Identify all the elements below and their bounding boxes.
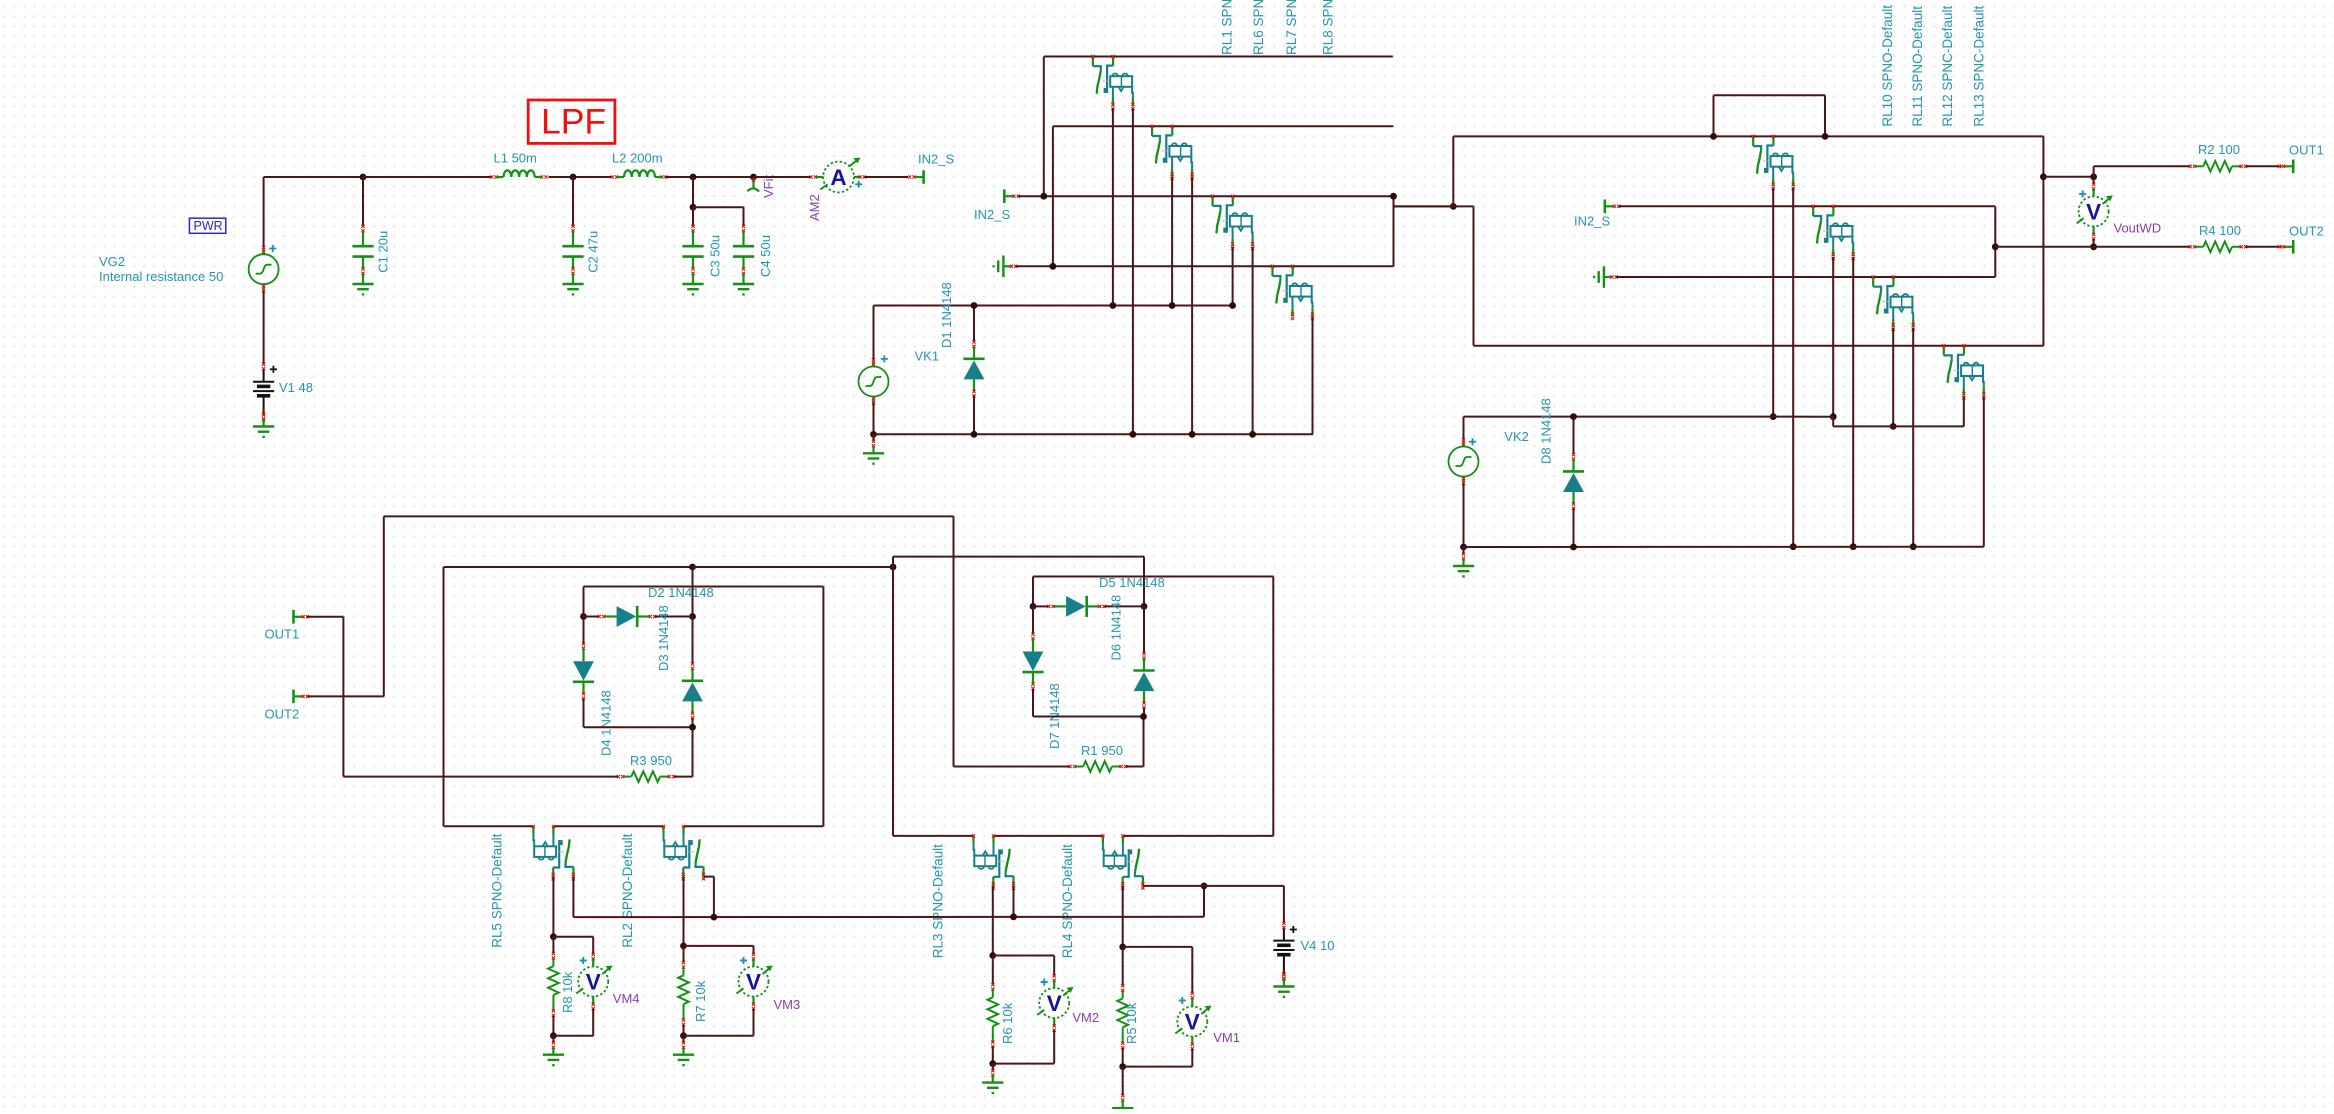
svg-text:LPF: LPF [541, 102, 606, 142]
junction RL7 coil1 [1229, 302, 1236, 309]
diode D8 1N4148 [1573, 417, 1575, 455]
svg-text:OUT1: OUT1 [2289, 143, 2324, 158]
ground (left-facing) right row 3 [1594, 266, 1612, 288]
svg-text:VM2: VM2 [1072, 1010, 1099, 1025]
wire R3 up [692, 727, 694, 776]
resistor R3 950 [617, 775, 625, 778]
voltmeter VM1 [1175, 997, 1211, 1045]
wire RL10 coil2 down [1792, 188, 1794, 547]
wire D5 cathode lead [1104, 605, 1144, 607]
wire main top-left [264, 176, 363, 178]
svg-text:V: V [1047, 991, 1062, 1016]
ground under VK2 [1453, 547, 1474, 576]
junction VFit [750, 174, 757, 181]
diode D5 1N4148 [1047, 605, 1055, 608]
wire rowR a [893, 835, 974, 837]
junction row4 riser [1050, 263, 1057, 270]
wire V4 drop [1283, 886, 1285, 924]
svg-text:V: V [1185, 1010, 1200, 1035]
junction J2 [1450, 203, 1457, 210]
relay RL3 SPNO-Default [974, 836, 1014, 886]
wire RL11 coil1 down [1832, 257, 1834, 417]
junction RL11 coil2 [1850, 543, 1857, 550]
wire RL5 contact drop [552, 877, 554, 937]
junction bridgeL left node [580, 613, 587, 620]
junction RL1 coil1 [1110, 302, 1117, 309]
svg-text:R7 10k: R7 10k [693, 980, 708, 1022]
junction R5 top [1119, 944, 1126, 951]
junction RL12 coil2 [1910, 543, 1917, 550]
junction RL6 coil1 [1169, 302, 1176, 309]
wire riser x1995 [1994, 206, 1996, 277]
junction bridgeL right node [689, 613, 696, 620]
battery V1 48 [253, 369, 274, 416]
resistor R8 10k [552, 952, 555, 960]
wire R8 stub [552, 937, 554, 954]
wire RL7 coil1 down [1232, 247, 1234, 306]
wire VM1 stem top [1191, 947, 1193, 993]
junction C1 node [360, 174, 367, 181]
svg-text:RL12 SPNC-Default: RL12 SPNC-Default [1940, 6, 1955, 127]
svg-text:C2 47u: C2 47u [585, 231, 600, 273]
junction control RL2 [711, 914, 718, 921]
wire OUT1 lead [307, 616, 344, 618]
svg-text:VM1: VM1 [1213, 1030, 1240, 1045]
wire J2 riser [1452, 136, 1454, 206]
diode D4 1N4148 [583, 617, 585, 644]
ammeter AM2 [816, 176, 824, 178]
resistor R1 950 [1069, 765, 1077, 768]
wire R5 bottom [1122, 1048, 1124, 1067]
capacitor C3 50u [692, 207, 694, 226]
wire RL13 coil2 down [1983, 396, 1985, 547]
wire RL13 coil1 down [1963, 396, 1965, 426]
wire RL6 coil1 down [1171, 177, 1173, 306]
wire to C4 [693, 206, 744, 208]
svg-text:R1 950: R1 950 [1081, 743, 1123, 758]
wire bridgeR bottom [1033, 716, 1144, 718]
plus V1 [270, 366, 277, 373]
relay RL8 SPNO-Default [1273, 266, 1313, 316]
junction control RL3 [1010, 913, 1017, 920]
svg-text:VM3: VM3 [774, 997, 801, 1012]
ground under VK1 [863, 434, 884, 463]
wire boxR left side [892, 557, 894, 836]
wire VM2 branch bottom [993, 1063, 1054, 1065]
voltage probe VFit [747, 179, 759, 192]
svg-text:VK1: VK1 [915, 349, 940, 364]
wire VK2 top [1463, 417, 1465, 440]
wire bridgeR feed drop [1143, 557, 1145, 607]
label PWR [189, 218, 225, 233]
svg-text:D4 1N4148: D4 1N4148 [599, 690, 614, 756]
wire D2 anode lead [584, 616, 600, 618]
wire RL5 blade drop [572, 877, 574, 918]
wire R1 right lead [1126, 766, 1144, 768]
svg-text:RL4 SPNO-Default: RL4 SPNO-Default [1060, 844, 1075, 958]
wire rowL c [684, 825, 824, 827]
svg-text:VG2: VG2 [99, 254, 125, 269]
wire VoutWD riser [2093, 166, 2095, 177]
relay RL5 SPNO-Default [533, 827, 573, 877]
wire bridgeR feed top [893, 556, 1144, 558]
wire D2 cathode lead [655, 616, 693, 618]
wire R2 to OUT1 [2246, 165, 2282, 167]
wire RL2 blade jog [704, 876, 714, 878]
wire R5 stub [1122, 947, 1124, 986]
relay RL7 SPNO-Default [1213, 196, 1253, 246]
relay RL4 SPNO-Default [1103, 836, 1143, 886]
ground under R5 [1122, 1067, 1124, 1096]
diode bridge R top wires [1032, 577, 1034, 607]
wire mid link row right [693, 566, 894, 568]
wire R6 bottom [992, 1047, 994, 1064]
diode D2 1N4148 [598, 615, 606, 618]
wire VK1 top [873, 306, 875, 362]
label LPF box [528, 100, 615, 143]
junction RL6 coil2 [1189, 431, 1196, 438]
wire RL4 blade to V4 [1143, 885, 1284, 887]
svg-text:RL11 SPNO-Default: RL11 SPNO-Default [1910, 6, 1925, 127]
ground under R6 [982, 1064, 1003, 1093]
wire OUT2 riser [383, 516, 385, 696]
wire J1 riser [1393, 196, 1395, 266]
junction C2 node [570, 174, 577, 181]
wire boxL left side [443, 567, 445, 826]
svg-text:IN2_S: IN2_S [918, 152, 954, 167]
wire relay row 1 [1044, 56, 1393, 58]
junction bridgeL bottom node [689, 724, 696, 731]
svg-text:V4 10: V4 10 [1301, 938, 1335, 953]
svg-text:IN2_S: IN2_S [1574, 214, 1610, 229]
svg-text:RL7 SPNO-Default: RL7 SPNO-Default [1284, 0, 1299, 55]
junction bridgeR right node [1141, 603, 1148, 610]
wire down to C3/C4 tap [692, 177, 694, 207]
battery V4 10 [1273, 928, 1294, 975]
svg-text:L1 50m: L1 50m [494, 151, 537, 166]
wire right row 2 [1619, 205, 1996, 207]
wire right row 1 [1453, 135, 2043, 137]
wire RL1 coil1 down [1112, 108, 1114, 306]
relay RL13 SPNC-Default [1944, 346, 1984, 396]
junction RL11 coil1 [1830, 413, 1837, 420]
resistor R6 10k [991, 983, 994, 991]
svg-text:VM4: VM4 [613, 991, 640, 1006]
port IN2_S (top) [914, 170, 924, 184]
voltage generator VG2 [249, 248, 279, 290]
resistor R4 100 [2189, 245, 2197, 248]
wire VK2 plus row [1464, 416, 1834, 418]
junction bridgeR bottom node [1140, 713, 1147, 720]
relay RL10 SPNO-Default [1753, 136, 1793, 186]
wire VK1 plus row [874, 305, 1234, 307]
resistor R5 10k [1121, 984, 1124, 992]
junction RL10 coil2 [1790, 543, 1797, 550]
wire VK2 bottom [1463, 484, 1465, 548]
wire rowR c [1123, 835, 1273, 837]
junction bridgeR feed [890, 564, 897, 571]
wire R4 to OUT2 [2246, 246, 2282, 248]
wire VK1 minus row [874, 433, 1314, 435]
svg-text:OUT1: OUT1 [265, 627, 300, 642]
capacitor C1 20u [362, 177, 364, 227]
junction VoutWD row tap [1992, 243, 1999, 250]
ground under R7 [673, 1036, 694, 1065]
wire right row 3 [1616, 276, 1995, 278]
wire VG2 to V1 [263, 291, 265, 365]
svg-text:VK2: VK2 [1504, 429, 1529, 444]
plus VK1 [881, 355, 888, 362]
diode D6 1N4148 [1143, 606, 1145, 653]
wire RL11 coil2 down [1852, 257, 1854, 547]
wire jog up left [1713, 95, 1715, 136]
svg-text:V: V [2086, 199, 2101, 224]
junction bridgeL feed [689, 564, 696, 571]
wire RL3 contact drop [992, 886, 994, 956]
voltmeter VM3 [737, 957, 773, 1005]
svg-text:D6 1N4148: D6 1N4148 [1109, 595, 1124, 661]
wire L1 to L2 [549, 176, 613, 178]
svg-text:RL5 SPNO-Default: RL5 SPNO-Default [490, 833, 505, 947]
ground under V1 [253, 408, 274, 437]
junction VoutWD top [2090, 173, 2097, 180]
svg-text:VFit: VFit [761, 175, 776, 199]
svg-text:R4 100: R4 100 [2199, 223, 2241, 238]
wire R7 bottom [683, 1025, 685, 1036]
wire to AM2 [754, 176, 812, 178]
wire RL2 contact drop [683, 877, 685, 946]
wire VoutWD stem top [2093, 177, 2095, 184]
wire R3 right lead [674, 776, 693, 778]
ground under V4 [1273, 968, 1294, 997]
junction V4 feed [1201, 883, 1208, 890]
svg-text:R6 10k: R6 10k [1000, 1002, 1015, 1044]
junction R6 bottom [989, 1060, 996, 1067]
wire to L1 [363, 176, 491, 178]
wire drop to R1 [953, 516, 955, 766]
wire VM4 branch top [553, 936, 593, 938]
wire mid link row left [444, 566, 693, 568]
diode bridge L top node wires [583, 587, 585, 617]
wire R3 left lead [343, 776, 618, 778]
wire VM3 stem top [753, 946, 755, 954]
wire RL12 coil2 down [1912, 328, 1914, 547]
wire riser x1473 [1473, 206, 1475, 345]
wire rowL a [444, 825, 534, 827]
wire relay row 4 [1016, 265, 1394, 267]
wire RL7 coil2 down [1252, 247, 1254, 435]
svg-text:RL10 SPNO-Default: RL10 SPNO-Default [1880, 5, 1895, 127]
wire VK2 minus row [1464, 546, 1984, 548]
wire riser x1053 [1052, 126, 1054, 266]
wire jog down right [1824, 95, 1826, 136]
junction D8 bottom [1570, 544, 1577, 551]
wire top link OUT2 to R1 [384, 515, 954, 517]
ground under R8 [543, 1036, 564, 1065]
wire control row [573, 916, 1204, 918]
capacitor C2 47u [572, 177, 574, 227]
junction RL12 coil1 [1890, 423, 1897, 430]
svg-text:C1 20u: C1 20u [375, 231, 390, 273]
svg-text:OUT2: OUT2 [2289, 223, 2324, 238]
relay RL1 SPNO-Default [1093, 57, 1133, 107]
wire relay row 3 IN2_S [1018, 195, 1394, 197]
junction bridgeR left node [1030, 603, 1037, 610]
junction RL7 coil2 [1249, 431, 1256, 438]
wire R1 up [1143, 717, 1145, 767]
svg-text:VoutWD: VoutWD [2114, 221, 2162, 236]
svg-text:AM2: AM2 [807, 194, 822, 221]
wire R1 left lead [954, 766, 1071, 768]
wire riser x1044 [1043, 57, 1045, 197]
junction C4 tap [690, 204, 697, 211]
junction R5 bottom [1119, 1063, 1126, 1070]
junction J1 [1390, 193, 1397, 200]
wire RL3 blade drop [1013, 886, 1015, 917]
junction R8 bottom [550, 1032, 557, 1039]
wire R7 stub [683, 946, 685, 963]
port OUT2 (left) [294, 690, 304, 704]
svg-text:D3 1N4148: D3 1N4148 [656, 605, 671, 671]
wire RL8 coil2 down [1312, 317, 1314, 435]
wire control row riser [1203, 886, 1205, 917]
svg-text:A: A [830, 165, 846, 190]
plus VK2 [1469, 438, 1476, 445]
diode D7 1N4148 [1032, 606, 1034, 634]
diode D1 1N4148 [973, 306, 975, 343]
svg-text:PWR: PWR [194, 219, 223, 233]
wire VM4 branch bottom [553, 1035, 593, 1037]
svg-text:R5 10k: R5 10k [1124, 1002, 1139, 1044]
wire R8 bottom [552, 1016, 554, 1036]
wire VoutWD stem bottom [2093, 239, 2095, 247]
voltmeter VM4 [576, 957, 612, 1005]
svg-text:C3 50u: C3 50u [708, 235, 723, 277]
wire RL2 blade drop [713, 877, 715, 918]
wire RL6 coil2 down [1191, 177, 1193, 435]
wire VK2 row jog [1832, 417, 1834, 427]
wire L2 to VFit node [665, 176, 754, 178]
svg-text:RL8 SPNO-Default: RL8 SPNO-Default [1321, 0, 1336, 55]
svg-text:V1 48: V1 48 [279, 380, 313, 395]
svg-text:D8 1N4148: D8 1N4148 [1539, 398, 1554, 464]
svg-text:C4 50u: C4 50u [758, 235, 773, 277]
junction OUT1 tap [2040, 173, 2047, 180]
wire VM3 branch bottom [684, 1035, 754, 1037]
junction VoutWD bottom [2090, 243, 2097, 250]
wire RL12 coil1 down [1892, 328, 1894, 427]
svg-text:RL2 SPNO-Default: RL2 SPNO-Default [620, 833, 635, 947]
junction D1 bottom [971, 431, 978, 438]
plus V4 [1290, 926, 1297, 933]
wire RL4 contact drop [1122, 886, 1124, 947]
diode D3 1N4148 [692, 617, 694, 664]
relay RL2 SPNO-Default [664, 827, 704, 877]
svg-text:IN2_S: IN2_S [974, 207, 1010, 222]
junction R7 bottom [680, 1032, 687, 1039]
wire VM2 branch top [993, 955, 1054, 957]
wire VM3 branch top [684, 945, 754, 947]
relay RL6 SPNO-Default [1152, 126, 1192, 176]
port OUT1 [2284, 160, 2294, 174]
relay RL12 SPNC-Default [1873, 277, 1913, 327]
wire jog [1394, 205, 1474, 207]
wire RL10 coil1 down [1772, 188, 1774, 417]
voltmeter VM2 [1037, 979, 1073, 1027]
wire VM1 stem bottom [1191, 1049, 1193, 1067]
voltage source VK1 [859, 361, 889, 403]
svg-text:RL1 SPNO-Default: RL1 SPNO-Default [1220, 0, 1235, 55]
junction jog right [1822, 133, 1829, 140]
svg-text:RL3 SPNO-Default: RL3 SPNO-Default [930, 844, 945, 958]
inductor L2 200m [624, 170, 655, 177]
wire R6 stub [992, 956, 994, 985]
svg-text:OUT2: OUT2 [265, 707, 300, 722]
junction RL10 coil1 [1770, 413, 1777, 420]
junction D8 top [1570, 413, 1577, 420]
junction jog left [1710, 133, 1717, 140]
wire RL1 coil2 down [1132, 108, 1134, 434]
wire right row 4 [1474, 345, 2044, 347]
wire OUT2 row [1995, 246, 2190, 248]
junction R6 top [989, 952, 996, 959]
svg-text:D1 1N4148: D1 1N4148 [939, 282, 954, 348]
wire VM1 branch top [1123, 946, 1193, 948]
svg-text:R8 10k: R8 10k [560, 971, 575, 1013]
svg-text:R2 100: R2 100 [2198, 142, 2240, 157]
wire VM4 stem bottom [592, 1009, 594, 1036]
svg-text:RL13 SPNC-Default: RL13 SPNC-Default [1972, 6, 1987, 127]
wire rowR b [994, 835, 1103, 837]
wire AM2 to port IN2_S [865, 176, 909, 178]
wire VM2 stem top [1053, 956, 1055, 976]
ground (left-facing) row 4 [994, 256, 1012, 278]
svg-text:L2 200m: L2 200m [612, 151, 663, 166]
voltmeter VoutWD [2077, 188, 2113, 234]
svg-text:V: V [746, 970, 761, 995]
junction VK2 minus [1460, 544, 1467, 551]
wire to R2 [2094, 165, 2190, 167]
wire OUT1 tap row [2043, 176, 2093, 178]
wire VK2 plus row lower [1833, 425, 1964, 427]
wire J1 to J2 [1394, 205, 1454, 207]
resistor R2 100 [2189, 165, 2197, 168]
inductor L1 50m [504, 170, 535, 177]
relay RL11 SPNO-Default [1813, 206, 1853, 256]
wire VM3 stem bottom [753, 1009, 755, 1036]
resistor R7 10k [682, 961, 685, 969]
svg-text:D2 1N4148: D2 1N4148 [648, 585, 714, 600]
wire bridgeL bottom [584, 726, 693, 728]
wire VK1 bottom [873, 402, 875, 434]
capacitor C4 50u [743, 207, 745, 226]
svg-text:RL6 SPNO-Default: RL6 SPNO-Default [1251, 0, 1266, 55]
junction RL1 coil2 [1130, 431, 1137, 438]
wire VM4 stem top [592, 937, 594, 955]
svg-text:D5 1N4148: D5 1N4148 [1099, 575, 1165, 590]
wire C4 drop [743, 207, 745, 226]
svg-text:V: V [586, 970, 601, 995]
port IN2_S (mid) [1004, 189, 1014, 203]
wire OUT2 lead [307, 695, 384, 697]
port OUT2 [2284, 240, 2294, 254]
junction row3 riser [1040, 193, 1047, 200]
junction D1 top [971, 302, 978, 309]
wire VM1 branch bottom [1123, 1066, 1193, 1068]
voltage source VK2 [1449, 441, 1479, 483]
junction C3 node [690, 174, 697, 181]
junction VK1 minus [870, 431, 877, 438]
